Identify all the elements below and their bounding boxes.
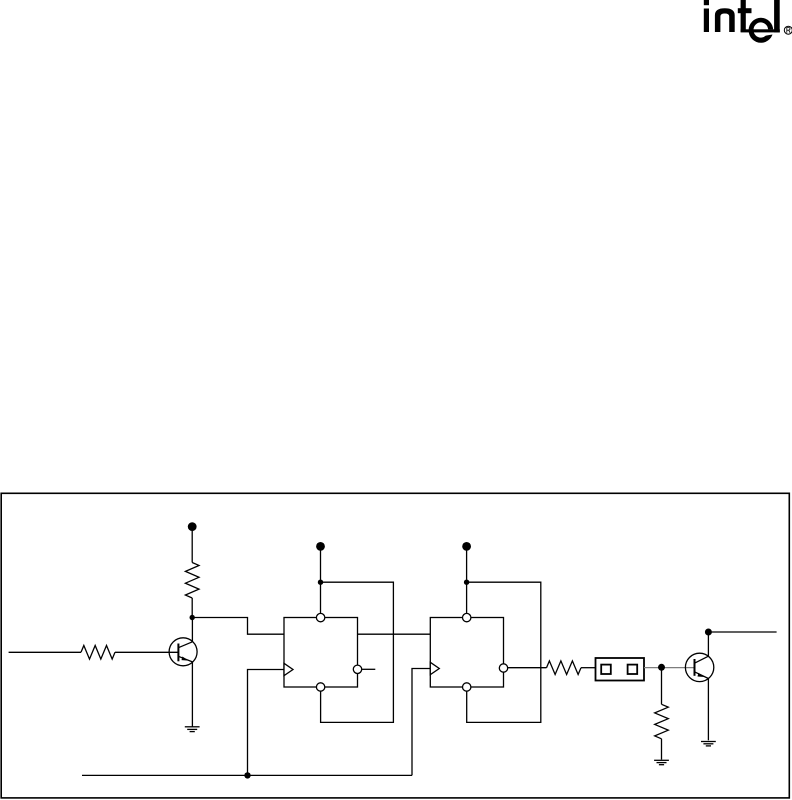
power node dot above U1	[316, 542, 325, 551]
wire clock bus bottom	[82, 774, 412, 776]
flip-flop U2	[430, 618, 503, 688]
intel logo	[704, 0, 792, 43]
wire Q2 collector up	[707, 632, 709, 656]
wire U1 Q to U2 D	[358, 633, 431, 635]
letter l stem	[774, 0, 780, 32]
U1 clock triangle	[284, 663, 293, 675]
transistor Q1	[169, 638, 197, 666]
letter e aperture	[765, 29, 784, 35]
letter t stem	[741, 0, 746, 32]
wire R3 to FB1	[581, 667, 596, 669]
wire output stub	[708, 631, 776, 633]
wire U2 Q to R3	[508, 667, 547, 669]
wire U2 clock	[412, 669, 430, 776]
ground under Q2	[701, 742, 716, 746]
wire FB1 to Q2 base	[644, 667, 695, 669]
wire U1 clock	[248, 670, 285, 776]
node collector output dot	[705, 629, 712, 636]
wire U2 feedback loop	[467, 582, 541, 722]
U2 clear pin circle	[463, 683, 471, 691]
wire R4 to ground	[661, 739, 663, 760]
U2 preset pin circle	[463, 613, 471, 621]
resistor R2 (base series)	[81, 646, 115, 660]
node U1 preset junction dot	[318, 580, 323, 585]
node clock bus junction dot	[244, 772, 250, 778]
resistor R4 (pull-down)	[655, 704, 669, 739]
power node dot above R1	[188, 522, 197, 531]
wire power dot to R1	[191, 528, 193, 563]
U1 Qbar pin circle	[353, 665, 361, 673]
resistor R3 (output series)	[547, 661, 582, 675]
letter i stem	[704, 9, 709, 33]
wire collector node to U1 D input	[192, 618, 284, 635]
wire U1 Qbar stub	[362, 668, 376, 670]
letter t crossbar	[738, 8, 752, 13]
letter n	[715, 8, 735, 32]
registered trademark symbol	[784, 26, 792, 34]
wire R1 to collector node	[191, 598, 193, 618]
ground under Q1	[185, 727, 200, 732]
letter e ring	[749, 18, 774, 43]
ferrite bead FB1	[596, 658, 645, 681]
schematic frame	[1, 493, 789, 798]
wire U1 feedback loop	[321, 582, 394, 722]
wire Q2 emitter down	[707, 679, 709, 741]
wire power dot to U1 node	[320, 548, 322, 582]
U1 preset pin circle	[316, 613, 324, 621]
node collector junction dot	[190, 615, 195, 620]
node U2 preset junction dot	[464, 580, 469, 585]
flip-flop U1	[284, 618, 358, 688]
U2 Q pin circle	[499, 664, 507, 672]
wire power dot to U2 node	[466, 548, 468, 582]
U1 clear pin circle	[316, 683, 324, 691]
wire R2 to Q1 base	[115, 651, 179, 653]
node base junction dot	[658, 664, 665, 671]
U2 clock triangle	[430, 662, 439, 674]
transistor Q2	[685, 653, 713, 681]
baseline bar of t-e-l	[741, 29, 780, 32]
ground under R4	[654, 760, 669, 764]
wire input stub	[9, 651, 81, 653]
wire junction to U2 preset	[466, 582, 468, 613]
resistor R1 (pull-up)	[185, 563, 199, 599]
wire Q1 emitter down	[191, 662, 193, 727]
wire junction to R4	[661, 668, 663, 705]
wire junction to U1 preset	[320, 582, 322, 613]
wire Q1 collector up	[191, 618, 193, 642]
letter i dot	[704, 0, 709, 5]
power node dot above U2	[462, 542, 471, 551]
